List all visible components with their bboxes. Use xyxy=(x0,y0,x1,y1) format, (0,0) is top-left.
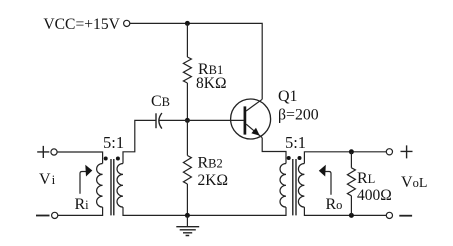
svg-text:5:1: 5:1 xyxy=(103,133,124,152)
resistor RL xyxy=(347,168,355,196)
transistor Q1 collector line xyxy=(246,99,262,111)
svg-text:VoL: VoL xyxy=(401,174,427,191)
resistor RB2 xyxy=(183,156,191,185)
arrow Ro xyxy=(325,172,331,195)
wire T2 secondary bottom to output minus terminal xyxy=(304,207,386,215)
node RL top junction xyxy=(349,149,354,154)
wire RB2 bottom stub xyxy=(186,184,188,215)
transformer T1 secondary dot xyxy=(116,157,120,161)
wire RL top stub xyxy=(350,152,352,168)
transformer T2 core xyxy=(293,159,296,215)
node base junction xyxy=(185,118,190,123)
svg-text:5:1: 5:1 xyxy=(285,133,306,152)
svg-text:VCC=+15V: VCC=+15V xyxy=(43,16,120,33)
label minus input xyxy=(36,215,50,217)
node VCC/RB1 junction xyxy=(185,21,190,26)
wire RB1 bottom to base node xyxy=(186,83,188,120)
wire input plus to transformer xyxy=(57,152,102,164)
node ground junction xyxy=(185,213,190,218)
transistor Q1 base bar xyxy=(244,106,247,134)
terminal output minus xyxy=(386,212,392,218)
terminal input plus xyxy=(51,149,57,155)
node RL bottom junction xyxy=(349,213,354,218)
wire base node to RB2 xyxy=(186,120,188,155)
terminal input minus xyxy=(52,212,58,218)
svg-text:400Ω: 400Ω xyxy=(357,187,392,204)
svg-text:Q1: Q1 xyxy=(278,88,298,105)
label plus input xyxy=(37,146,49,158)
svg-text:2KΩ: 2KΩ xyxy=(198,172,228,189)
svg-text:β=200: β=200 xyxy=(278,107,319,124)
arrow Ri xyxy=(80,172,86,194)
svg-text:Ro: Ro xyxy=(326,196,343,213)
wire input minus to transformer bottom xyxy=(58,207,103,215)
svg-text:Ri: Ri xyxy=(75,196,90,213)
terminal VCC xyxy=(124,20,130,26)
transformer T2 primary dot xyxy=(287,156,291,160)
resistor RB1 xyxy=(183,57,191,83)
wire capacitor left lead and drop to input transformer xyxy=(123,120,156,163)
transformer T1 primary dot xyxy=(104,157,108,161)
transistor Q1 emitter line xyxy=(246,124,262,138)
wire bottom rail between transformers xyxy=(123,207,286,215)
terminal output plus xyxy=(386,149,392,155)
svg-text:CB: CB xyxy=(151,93,170,110)
svg-text:Vi: Vi xyxy=(39,171,56,188)
transistor Q1 circle xyxy=(231,99,271,139)
ground xyxy=(186,215,188,226)
transformer T1 secondary winding xyxy=(117,164,123,208)
capacitor CB left plate xyxy=(155,113,157,128)
label plus output xyxy=(401,145,413,158)
wire base node to transistor base xyxy=(160,119,244,121)
transformer T1 core xyxy=(111,159,114,215)
transformer T1 primary winding xyxy=(97,164,103,208)
wire emitter to output transformer primary xyxy=(262,138,286,164)
transformer T2 primary winding xyxy=(280,164,286,208)
svg-text:8KΩ: 8KΩ xyxy=(196,75,226,92)
transformer T2 secondary dot xyxy=(298,156,302,160)
svg-text:RL: RL xyxy=(357,170,375,187)
capacitor CB right plate (curved) xyxy=(159,113,162,129)
wire T2 secondary top to output plus terminal xyxy=(304,152,386,164)
wire RB1 top stub xyxy=(186,23,188,57)
transistor Q1 emitter arrowhead xyxy=(251,128,259,136)
wire RL bottom stub xyxy=(350,196,352,216)
label minus output xyxy=(399,215,412,217)
svg-text:RB2: RB2 xyxy=(198,155,223,172)
wire VCC rail to collector drop xyxy=(130,23,262,99)
transformer T2 secondary winding xyxy=(298,164,304,208)
